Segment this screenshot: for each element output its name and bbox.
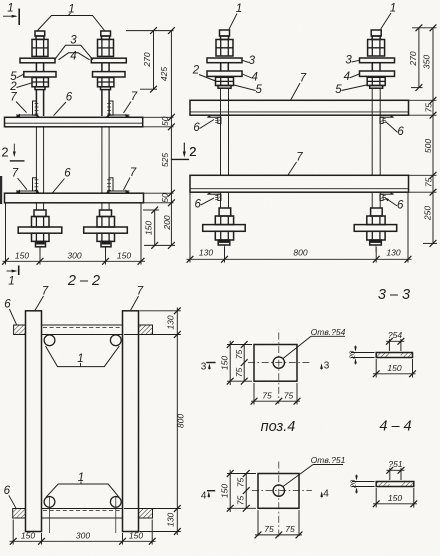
title 3-3: [378, 287, 410, 303]
bottom dimension row 150/300/150 (view C): [10, 520, 156, 545]
dimension 20 thickness (section 4-4): [349, 475, 375, 494]
column 7 left (view C): [26, 311, 42, 532]
bolt heads bottom (view C): [44, 497, 121, 508]
angle clip 7 (view A plate2 right): [106, 178, 131, 193]
dimension 150 (section 4-4): [373, 488, 417, 508]
label 6 (view B beam2 left): [194, 198, 214, 211]
bottom dimension row 150/300/150 (view A): [2, 203, 145, 265]
title 4-4: [379, 419, 411, 435]
dimension column 350/75/500/75/250 (view B right outer): [409, 24, 438, 246]
bottom anchor assembly left (view B): [203, 208, 246, 252]
title 2-2: [67, 273, 100, 289]
label 6 (view B beam1 right): [386, 122, 405, 138]
title pos.4: [261, 419, 296, 435]
bottom anchor assembly right (view B): [354, 208, 397, 252]
label Otv.54 with leader (top plate): [283, 327, 346, 359]
bolt shanks between plates (view A): [36, 127, 109, 194]
dimension 75/75 (top plate left inner): [234, 341, 248, 385]
channel 6 stub bottom-left (view C, hatched): [13, 509, 26, 519]
anchor bolt right (view A): [98, 31, 114, 116]
label 3 (view A): [70, 35, 77, 47]
labels 7 (view C column tops): [35, 286, 144, 311]
yoke strap 1 bottom (view C): [46, 484, 119, 497]
label 1 with leader (view B left bolt): [229, 3, 243, 30]
washer plate row 2 (view A): [24, 72, 125, 77]
dimension d51 (section 4-4 hole): [386, 459, 404, 480]
angle clip 6 (view B beam1 left): [207, 115, 221, 124]
section mark 4 (plate right): [320, 489, 329, 500]
dimension 150 (bottom plate left): [220, 470, 257, 512]
label 4 (view A): [70, 50, 76, 62]
dimension 75/75 (bottom plate left inner): [236, 470, 250, 512]
angle clip 6 (view B beam2 left): [207, 192, 221, 201]
angle clip 6 (view B beam1 right): [380, 115, 394, 124]
label 7 with leader (view A upper right angle): [124, 91, 138, 113]
strap 3 (view A, outer hat profile): [55, 45, 94, 60]
dimension 75/75 (top plate bottom): [251, 383, 301, 405]
dimension 150 (section 3-3): [373, 359, 416, 378]
yoke strap 1 top (view C, trapezoid): [46, 346, 120, 367]
bolt shanks through and between beams (view B): [221, 100, 381, 208]
section 4-4 plate bar with hole (hatched): [376, 482, 414, 487]
label 1 (view C bottom yoke): [78, 472, 84, 484]
label 1 (view C top yoke): [77, 353, 83, 366]
anchor bolt left (view B): [216, 30, 234, 100]
labels 7, 6, 7 (view A lower): [12, 167, 137, 193]
column 7 right (view C): [123, 311, 139, 532]
bottom dimension row 130/800/130 (view B): [187, 193, 412, 263]
bolt heads top (view C, circles): [44, 335, 121, 346]
channel beam 7 (view B lower): [190, 175, 409, 192]
labels 3,4,5 (view B right bolt): [335, 55, 366, 97]
section 3-3 plate bar with hole (hatched): [376, 353, 412, 358]
dimension d54 (section 3-3 hole): [386, 330, 404, 351]
channel beam 7 (view B upper): [190, 100, 409, 115]
label 6 (view C top-left): [4, 298, 16, 324]
label Otv.51 with leader (bottom plate): [283, 455, 346, 487]
dimension column 130/800/130 (view C right): [124, 307, 185, 535]
section mark 1 (top-left): [3, 3, 19, 26]
label 6 with leader (view A upper): [54, 92, 73, 116]
section mark 2 (view A left): [1, 144, 24, 161]
base plate 6 (view A lower): [5, 193, 144, 203]
bottom anchor assembly right (view A): [84, 202, 128, 253]
bolt centrelines through bottom beam (view C): [50, 497, 116, 533]
section mark 1 (view A bottom-left): [7, 266, 19, 288]
plate pos.4 with hole d51 (plan): [252, 462, 312, 538]
dimension 150 (view A right, bottom assembly): [143, 207, 159, 249]
washer plate row 1 (view A): [20, 58, 126, 63]
angle clip 7 (view A plate1 left): [15, 101, 40, 117]
label 1 (view A): [68, 3, 75, 15]
scan edge artifact: [0, 176, 2, 204]
cross beam top (view C): [42, 325, 123, 335]
base plate 6 (view A upper): [5, 117, 143, 127]
dimension column 425/50/525/50/200 (view A right outer): [143, 27, 175, 249]
dimension 75/75 (bottom plate bottom): [255, 510, 303, 538]
labels 2,3,4,5 (view B left bolt): [192, 55, 263, 96]
label 7 with leader (view B lower beam): [288, 152, 303, 176]
label 6 (view C bottom-left): [4, 485, 16, 508]
cross beam bottom (view C): [42, 509, 123, 519]
washer plates rows (view B): [207, 58, 395, 76]
plate pos.4 with hole d54 (plan): [248, 333, 312, 405]
channel 6 stub top-right (view C, hatched): [139, 325, 153, 335]
section mark 4 (plate left): [201, 491, 215, 502]
section mark 2 (view B left): [183, 143, 197, 159]
label 7 with leader (view B upper beam): [291, 73, 307, 101]
section mark 2 (view A right): [171, 143, 197, 160]
anchor bolt right (view B): [367, 30, 385, 100]
strap 4 (view A, inner hat profile): [59, 53, 90, 60]
labels 5, 2, 7 with leaders (view A left): [9, 71, 32, 113]
angle clip 7 (view A plate2 left): [15, 178, 40, 193]
section mark 3 (plate left): [201, 362, 216, 373]
anchor bolt left (view A): head, nuts, washers: [32, 31, 48, 116]
dimension 150 (top plate left): [220, 341, 253, 385]
section mark 3 (plate right): [320, 361, 330, 372]
angle clip 6 (view B beam2 right): [380, 192, 394, 201]
dimension 20 thickness (section 3-3): [348, 346, 375, 365]
label 6 (view B beam1 left): [193, 120, 214, 135]
dimension 270 (view B right inner): [408, 24, 437, 91]
channel 6 stub bottom-right (view C, hatched): [139, 509, 153, 519]
dimension 270 (view A right inner): [126, 27, 174, 92]
bottom anchor assembly left (view A): washer, nuts, anchor plate, end: [18, 202, 62, 253]
label 6 (view B beam2 right): [384, 197, 404, 212]
label 1 with leader (view B right bolt): [381, 3, 397, 30]
angle clip 7 (view A plate1 right): [106, 101, 131, 117]
yoke strap 1 (view A, big trapezoid): [38, 16, 105, 31]
channel 6 stub top-left (view C, hatched): [14, 325, 26, 335]
